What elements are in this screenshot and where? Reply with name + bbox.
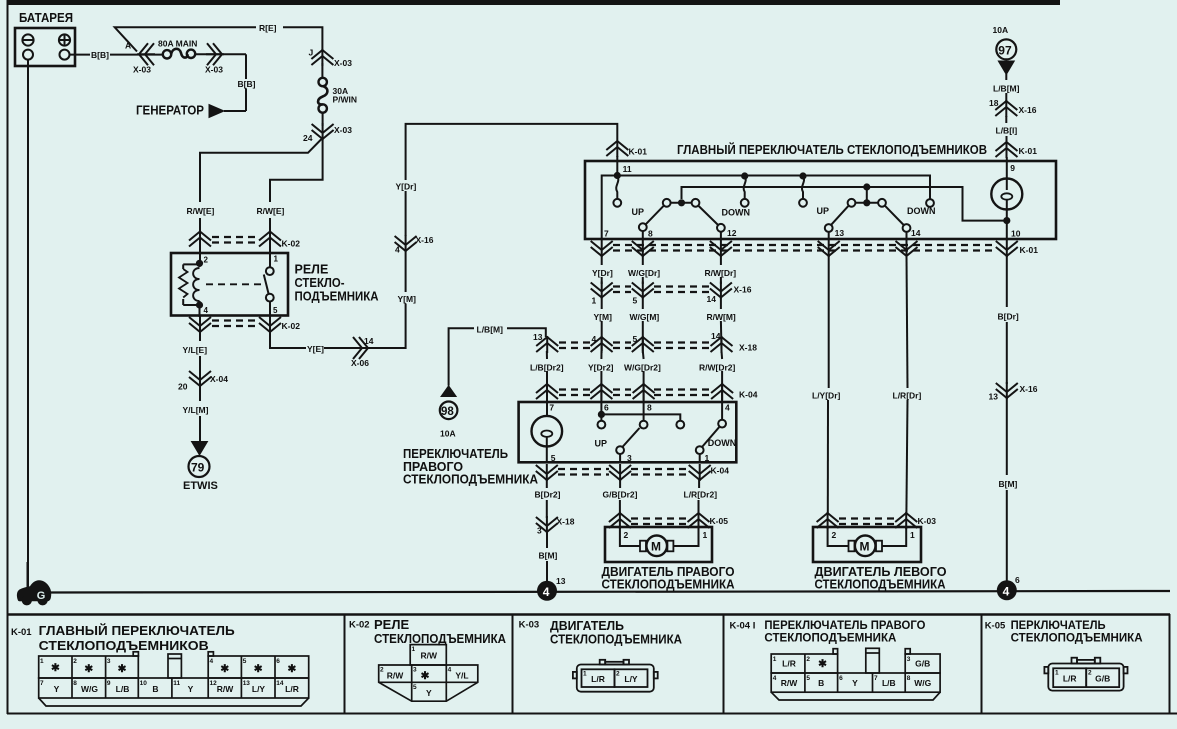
svg-text:10A: 10A xyxy=(993,25,1009,35)
svg-text:7: 7 xyxy=(874,675,878,682)
svg-text:K-05: K-05 xyxy=(985,621,1006,632)
svg-text:W/G: W/G xyxy=(914,678,931,688)
svg-text:G/B: G/B xyxy=(915,659,930,669)
svg-text:4: 4 xyxy=(210,658,214,665)
svg-text:L/R: L/R xyxy=(285,684,299,694)
svg-text:13: 13 xyxy=(556,576,566,586)
svg-text:W/G[Dr]: W/G[Dr] xyxy=(628,268,660,278)
svg-text:9: 9 xyxy=(107,680,111,687)
svg-text:ПОДЪЕМНИКА: ПОДЪЕМНИКА xyxy=(295,290,379,304)
svg-text:UP: UP xyxy=(817,206,830,216)
svg-text:K-03: K-03 xyxy=(519,620,540,631)
svg-text:R/W: R/W xyxy=(387,671,405,681)
svg-text:13: 13 xyxy=(533,332,543,342)
svg-text:Y: Y xyxy=(54,684,60,694)
svg-text:X-18: X-18 xyxy=(739,343,757,353)
svg-text:4: 4 xyxy=(395,245,400,255)
svg-text:СТЕКЛОПОДЪЕМНИКА: СТЕКЛОПОДЪЕМНИКА xyxy=(1011,633,1143,645)
svg-text:1: 1 xyxy=(705,453,710,463)
svg-text:ETWIS: ETWIS xyxy=(183,480,218,492)
svg-text:79: 79 xyxy=(191,461,205,475)
svg-text:L/R: L/R xyxy=(782,659,796,669)
svg-text:K-01: K-01 xyxy=(629,147,648,157)
svg-text:✱: ✱ xyxy=(287,663,296,675)
svg-text:B[B]: B[B] xyxy=(238,79,256,89)
svg-text:14: 14 xyxy=(276,680,284,687)
svg-text:13: 13 xyxy=(243,680,251,687)
svg-text:14: 14 xyxy=(707,294,717,304)
svg-text:ГЕНЕРАТОР: ГЕНЕРАТОР xyxy=(136,104,204,118)
svg-text:7: 7 xyxy=(549,403,554,413)
svg-text:R/W[M]: R/W[M] xyxy=(707,312,736,322)
svg-text:✱: ✱ xyxy=(118,663,127,675)
svg-text:DOWN: DOWN xyxy=(708,438,737,448)
svg-text:K-02: K-02 xyxy=(349,620,370,631)
svg-text:1: 1 xyxy=(583,671,587,678)
svg-text:1: 1 xyxy=(910,530,915,540)
svg-text:3: 3 xyxy=(107,658,111,665)
svg-text:Y[M]: Y[M] xyxy=(398,294,417,304)
svg-text:97: 97 xyxy=(998,44,1012,58)
svg-text:СТЕКЛОПОДЪЕМНИКОВ: СТЕКЛОПОДЪЕМНИКОВ xyxy=(39,638,209,653)
svg-text:6: 6 xyxy=(839,675,843,682)
svg-text:X-03: X-03 xyxy=(205,65,223,75)
svg-text:W/G: W/G xyxy=(81,684,98,694)
svg-text:1: 1 xyxy=(703,530,708,540)
svg-text:ГЛАВНЫЙ ПЕРЕКЛЮЧАТЕЛЬ СТЕКЛОПО: ГЛАВНЫЙ ПЕРЕКЛЮЧАТЕЛЬ СТЕКЛОПОДЪЕМНИКОВ xyxy=(677,142,987,157)
svg-text:Y: Y xyxy=(852,678,858,688)
svg-text:R/W: R/W xyxy=(217,684,235,694)
svg-text:X-18: X-18 xyxy=(557,517,575,527)
svg-text:Y[M]: Y[M] xyxy=(594,312,613,322)
svg-text:B[M]: B[M] xyxy=(539,551,558,561)
svg-text:24: 24 xyxy=(303,133,313,143)
svg-text:L/B[I]: L/B[I] xyxy=(996,126,1018,136)
svg-text:5: 5 xyxy=(243,658,247,665)
svg-text:5: 5 xyxy=(273,306,278,315)
svg-text:R/W[E]: R/W[E] xyxy=(187,206,215,216)
svg-text:РЕЛЕ: РЕЛЕ xyxy=(374,617,409,632)
svg-text:UP: UP xyxy=(632,207,645,217)
svg-text:X-04: X-04 xyxy=(210,374,228,384)
svg-text:1: 1 xyxy=(274,255,279,264)
svg-text:M: M xyxy=(860,540,870,554)
svg-text:2: 2 xyxy=(1088,670,1092,677)
svg-text:13: 13 xyxy=(989,392,999,402)
svg-text:K-04: K-04 xyxy=(711,466,730,476)
svg-text:14: 14 xyxy=(364,336,374,346)
svg-text:5: 5 xyxy=(413,684,417,691)
svg-text:5: 5 xyxy=(551,453,556,463)
svg-text:1: 1 xyxy=(412,646,416,653)
svg-text:L/B[M]: L/B[M] xyxy=(993,84,1020,94)
svg-text:DOWN: DOWN xyxy=(907,206,936,216)
svg-text:Y/L[M]: Y/L[M] xyxy=(183,405,209,415)
svg-text:2: 2 xyxy=(616,671,620,678)
svg-text:4: 4 xyxy=(543,585,550,599)
svg-text:Y[Dr]: Y[Dr] xyxy=(592,268,613,278)
svg-text:1: 1 xyxy=(592,296,597,306)
svg-text:5: 5 xyxy=(633,296,638,306)
svg-text:X-06: X-06 xyxy=(351,358,369,368)
svg-text:L/R[Dr]: L/R[Dr] xyxy=(893,391,922,401)
svg-text:РЕЛЕ: РЕЛЕ xyxy=(295,263,329,277)
svg-text:B[M]: B[M] xyxy=(999,479,1018,489)
svg-text:K-01: K-01 xyxy=(1020,245,1039,255)
svg-text:B[B]: B[B] xyxy=(91,50,109,60)
svg-text:X-16: X-16 xyxy=(734,285,752,295)
svg-text:G/B: G/B xyxy=(1095,674,1110,684)
svg-text:DOWN: DOWN xyxy=(722,208,751,218)
svg-text:X-16: X-16 xyxy=(1019,105,1037,115)
svg-text:Y/L: Y/L xyxy=(455,671,468,681)
svg-text:2: 2 xyxy=(624,530,629,540)
svg-text:Y[E]: Y[E] xyxy=(307,344,324,354)
svg-text:B[Dr]: B[Dr] xyxy=(998,312,1019,322)
svg-text:X-16: X-16 xyxy=(416,235,434,245)
svg-text:R/W[E]: R/W[E] xyxy=(257,206,285,216)
svg-text:A: A xyxy=(125,41,131,51)
svg-text:Y[Dr2]: Y[Dr2] xyxy=(588,363,614,373)
svg-text:L/Y: L/Y xyxy=(624,674,638,684)
svg-text:8: 8 xyxy=(648,229,653,239)
svg-text:СТЕКЛОПОДЪЕМНИКА: СТЕКЛОПОДЪЕМНИКА xyxy=(550,632,683,647)
svg-text:X-16: X-16 xyxy=(1020,384,1038,394)
svg-text:2: 2 xyxy=(204,256,209,265)
svg-text:1: 1 xyxy=(1055,670,1059,677)
svg-text:L/Y: L/Y xyxy=(252,684,266,694)
svg-text:2: 2 xyxy=(806,656,810,663)
svg-text:L/B[M]: L/B[M] xyxy=(477,325,504,335)
svg-text:G/B[Dr2]: G/B[Dr2] xyxy=(603,490,638,500)
svg-text:UP: UP xyxy=(595,439,608,449)
svg-text:11: 11 xyxy=(623,164,632,174)
svg-text:✱: ✱ xyxy=(51,662,60,674)
svg-text:X-03: X-03 xyxy=(334,58,352,68)
svg-text:P/WIN: P/WIN xyxy=(333,95,358,105)
svg-text:Y/L[E]: Y/L[E] xyxy=(183,345,208,355)
svg-text:3: 3 xyxy=(537,526,542,536)
svg-text:1: 1 xyxy=(773,656,777,663)
svg-text:1: 1 xyxy=(40,658,44,665)
svg-text:K-02: K-02 xyxy=(282,239,301,249)
svg-text:СТЕКЛОПОДЪЕМНИКА: СТЕКЛОПОДЪЕМНИКА xyxy=(602,578,735,592)
svg-text:✱: ✱ xyxy=(818,658,827,670)
svg-text:R/W: R/W xyxy=(781,678,799,688)
svg-text:3: 3 xyxy=(413,667,417,674)
svg-text:L/B: L/B xyxy=(882,678,896,688)
svg-text:3: 3 xyxy=(627,453,632,463)
svg-text:10A: 10A xyxy=(440,429,456,439)
svg-text:14: 14 xyxy=(711,331,721,341)
svg-text:X-03: X-03 xyxy=(334,125,352,135)
svg-text:СТЕКЛОПОДЪЕМНИКА: СТЕКЛОПОДЪЕМНИКА xyxy=(764,633,896,645)
svg-text:✱: ✱ xyxy=(254,663,263,675)
svg-text:B: B xyxy=(152,684,158,694)
svg-text:СТЕКЛОПОДЪЕМНИКА: СТЕКЛОПОДЪЕМНИКА xyxy=(815,578,946,592)
svg-text:2: 2 xyxy=(832,530,837,540)
svg-text:5: 5 xyxy=(806,675,810,682)
svg-text:K-03: K-03 xyxy=(918,516,937,526)
svg-text:Y: Y xyxy=(188,684,194,694)
svg-text:L/Y[Dr]: L/Y[Dr] xyxy=(812,391,841,401)
svg-text:R/W: R/W xyxy=(421,651,439,661)
svg-text:4: 4 xyxy=(773,675,777,682)
svg-text:8: 8 xyxy=(73,680,77,687)
svg-text:8: 8 xyxy=(907,675,911,682)
svg-text:98: 98 xyxy=(441,406,454,418)
svg-text:K-05: K-05 xyxy=(710,516,729,526)
svg-text:Y: Y xyxy=(426,688,432,698)
svg-text:9: 9 xyxy=(1010,163,1015,173)
svg-text:20: 20 xyxy=(178,382,188,392)
svg-text:10: 10 xyxy=(1011,229,1021,239)
svg-text:10: 10 xyxy=(140,680,148,687)
svg-text:X-03: X-03 xyxy=(133,65,151,75)
svg-text:L/R[Dr2]: L/R[Dr2] xyxy=(684,490,718,500)
svg-text:✱: ✱ xyxy=(421,670,430,682)
svg-text:14: 14 xyxy=(911,228,921,238)
svg-text:K-01: K-01 xyxy=(11,627,32,638)
svg-text:L/R: L/R xyxy=(1063,674,1077,684)
svg-text:18: 18 xyxy=(989,98,999,108)
svg-text:СТЕКЛО-: СТЕКЛО- xyxy=(295,276,345,290)
svg-text:ГЛАВНЫЙ ПЕРЕКЛЮЧАТЕЛЬ: ГЛАВНЫЙ ПЕРЕКЛЮЧАТЕЛЬ xyxy=(39,623,235,638)
svg-text:БАТАРЕЯ: БАТАРЕЯ xyxy=(19,11,73,25)
svg-text:M: M xyxy=(651,540,661,554)
svg-text:K-04 I: K-04 I xyxy=(730,621,756,632)
svg-text:✱: ✱ xyxy=(84,663,93,675)
svg-text:R/W[Dr2]: R/W[Dr2] xyxy=(699,363,736,373)
svg-text:4: 4 xyxy=(204,306,209,315)
svg-text:6: 6 xyxy=(1015,575,1020,585)
svg-text:СТЕКЛОПОДЪЕМНИКА: СТЕКЛОПОДЪЕМНИКА xyxy=(403,473,538,487)
svg-text:4: 4 xyxy=(725,403,730,413)
svg-text:B: B xyxy=(818,678,824,688)
svg-text:13: 13 xyxy=(835,228,845,238)
svg-text:K-01: K-01 xyxy=(1019,146,1038,156)
svg-text:ПЕРЕКЛЮЧАТЕЛЬ: ПЕРЕКЛЮЧАТЕЛЬ xyxy=(403,447,508,461)
svg-text:W/G[M]: W/G[M] xyxy=(630,312,660,322)
svg-text:12: 12 xyxy=(727,228,737,238)
svg-text:4: 4 xyxy=(1003,584,1010,598)
svg-text:3: 3 xyxy=(907,656,911,663)
svg-text:5: 5 xyxy=(633,334,638,344)
svg-text:2: 2 xyxy=(380,667,384,674)
svg-text:6: 6 xyxy=(276,658,280,665)
svg-text:R[E]: R[E] xyxy=(259,23,277,33)
svg-text:B[Dr2]: B[Dr2] xyxy=(535,490,561,500)
svg-text:K-04: K-04 xyxy=(739,390,758,400)
svg-text:8: 8 xyxy=(647,403,652,413)
svg-text:G: G xyxy=(37,590,46,602)
svg-text:W/G[Dr2]: W/G[Dr2] xyxy=(624,363,661,373)
svg-text:2: 2 xyxy=(73,658,77,665)
svg-text:✱: ✱ xyxy=(220,663,229,675)
svg-text:J: J xyxy=(309,48,314,58)
svg-text:L/B: L/B xyxy=(116,684,130,694)
svg-text:ПЕРКЛЮЧАТЕЛЬ: ПЕРКЛЮЧАТЕЛЬ xyxy=(1011,620,1106,632)
svg-text:6: 6 xyxy=(604,403,609,413)
svg-text:L/R: L/R xyxy=(591,674,605,684)
svg-text:R/W[Dr]: R/W[Dr] xyxy=(705,268,737,278)
svg-text:4: 4 xyxy=(448,667,452,674)
svg-text:Y[Dr]: Y[Dr] xyxy=(396,182,417,192)
svg-text:4: 4 xyxy=(592,334,597,344)
svg-text:K-02: K-02 xyxy=(282,321,301,331)
svg-text:ПЕРЕКЛЮЧАТЕЛЬ ПРАВОГО: ПЕРЕКЛЮЧАТЕЛЬ ПРАВОГО xyxy=(764,620,925,632)
svg-text:7: 7 xyxy=(40,680,44,687)
svg-text:80A MAIN: 80A MAIN xyxy=(158,39,197,49)
svg-text:7: 7 xyxy=(604,229,609,239)
svg-text:11: 11 xyxy=(173,680,180,687)
